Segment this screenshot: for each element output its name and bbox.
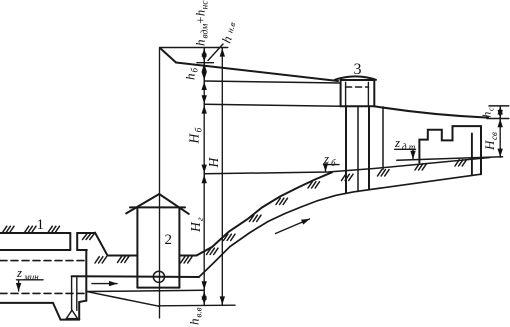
hatch group ground left — [3, 226, 15, 232]
svg-text:с: с — [487, 107, 496, 111]
bottom-left trench diagonal — [88, 292, 159, 306]
A arrows seg1 — [203, 49, 205, 53]
A arrows seg5 — [203, 175, 205, 180]
z_dt arrow — [412, 150, 414, 159]
z_dt label — [394, 135, 416, 152]
building outline — [419, 126, 481, 174]
svg-text:H: H — [187, 133, 202, 145]
terrain hatch 1 — [207, 248, 219, 254]
label h_b — [183, 68, 200, 81]
label H — [206, 157, 221, 169]
bottom tick — [159, 304, 235, 307]
tank outer left — [340, 80, 342, 106]
z_b underline — [324, 164, 340, 166]
hatch lower ground 1 — [95, 257, 107, 263]
tank top — [341, 79, 375, 81]
svg-text:вдм: вдм — [200, 24, 211, 39]
plateau hatch 3 — [415, 164, 427, 170]
h_c top tick — [489, 105, 509, 107]
A arrows seg4 — [203, 106, 205, 110]
svg-text:б: б — [331, 158, 336, 168]
H_sv label — [482, 132, 499, 151]
svg-text:3: 3 — [354, 61, 362, 78]
label H_g — [188, 217, 206, 233]
trunk left — [345, 106, 347, 193]
svg-text:в.в: в.в — [194, 307, 204, 317]
service vertical right of tower — [382, 107, 384, 169]
lower ground right of well — [180, 255, 197, 257]
z_min underline — [17, 279, 44, 281]
dimension line A — [203, 48, 205, 306]
svg-text:2: 2 — [165, 232, 173, 248]
B top arrow — [221, 49, 223, 54]
z_min arrow — [18, 281, 20, 292]
tank bottom — [341, 105, 375, 107]
pit slant — [53, 303, 61, 320]
svg-text:h: h — [187, 319, 202, 326]
h_c label — [482, 107, 496, 118]
z_min label — [16, 265, 39, 282]
terrain slope — [197, 172, 333, 255]
svg-text:z: z — [394, 135, 400, 150]
svg-text:H: H — [482, 140, 497, 151]
z_b label — [323, 151, 336, 168]
flow arrow slope — [276, 219, 310, 234]
well wall left — [136, 207, 138, 287]
steep head-loss line — [160, 48, 176, 62]
terrain hatch 2 — [224, 234, 236, 240]
svg-text:z: z — [323, 151, 329, 166]
hatch group at mound — [83, 234, 95, 240]
z_dt underline — [395, 148, 416, 150]
suction drop pipe left — [71, 276, 73, 310]
terrain hatch 5 — [308, 182, 320, 188]
B bottom arrow — [221, 299, 223, 304]
piezometric line to tower — [176, 63, 338, 82]
svg-text:+h: +h — [194, 10, 208, 25]
pit bottom — [61, 319, 80, 321]
dimension line B — [221, 48, 223, 306]
standpipe — [471, 133, 473, 174]
pipe bottom / reference — [86, 290, 204, 291]
floor lip — [79, 301, 86, 302]
dashed water level lower (z min) — [0, 292, 84, 294]
A arrows seg2 — [203, 64, 205, 68]
plateau hatch 1 — [342, 174, 354, 180]
dashed water level upper — [0, 260, 86, 262]
well wall right — [178, 207, 180, 287]
h_c dimension arrows — [499, 107, 501, 118]
terrain hatch 4 — [276, 198, 288, 204]
ground reference line — [204, 158, 490, 174]
pump circle — [153, 271, 164, 282]
axis / reference vertical — [159, 48, 161, 319]
tower roof — [335, 76, 376, 79]
neck wall left — [69, 233, 71, 250]
ground line left — [0, 232, 95, 234]
flow arrow left — [92, 283, 117, 285]
chamber top line — [0, 249, 87, 251]
label H_b — [187, 127, 205, 145]
roof eaves — [130, 206, 185, 208]
h_c bottom tick — [487, 118, 509, 120]
suction pipe top — [72, 275, 199, 278]
svg-text:h: h — [183, 74, 198, 81]
label h_vv — [187, 307, 204, 325]
svg-text:мин: мин — [23, 272, 39, 282]
svg-text:h: h — [193, 40, 208, 47]
riser pipe — [357, 106, 359, 191]
tank bottom level line — [204, 104, 340, 106]
tick at tower water level extended — [197, 62, 214, 64]
A arrows seg6 — [203, 292, 205, 296]
well floor — [137, 287, 179, 289]
dictating point level line — [397, 157, 503, 160]
roof right slope — [159, 194, 189, 214]
A arrows seg3 — [203, 82, 205, 86]
svg-text:б: б — [194, 127, 205, 133]
svg-text:H: H — [206, 157, 221, 169]
svg-text:св: св — [489, 132, 499, 140]
svg-text:h: h — [219, 34, 235, 45]
label h_nv top — [219, 21, 238, 45]
plateau hatch 2 — [378, 170, 390, 176]
hatch lower ground 2 — [118, 256, 130, 262]
chamber right wall — [85, 250, 87, 301]
tank inner right — [367, 82, 369, 106]
label h_vdm+h_ns — [193, 0, 211, 46]
roof left slope — [126, 194, 159, 213]
rising main pipe — [199, 174, 481, 277]
plateau hatch 4 — [455, 160, 467, 166]
hatch group ground right — [48, 226, 60, 232]
H_sv dimension line — [499, 119, 501, 158]
pit right wall — [78, 302, 80, 320]
terrain hatch 3 — [250, 215, 262, 221]
svg-text:1: 1 — [37, 217, 45, 233]
strainer triangle — [66, 310, 77, 318]
hatch group ground mid — [25, 226, 37, 232]
leader h_nv — [208, 44, 223, 61]
top tick (pump head level) — [160, 47, 228, 49]
z_b arrow — [325, 165, 327, 171]
svg-text:н.в: н.в — [225, 21, 238, 34]
svg-text:H: H — [188, 221, 203, 233]
svg-text:д.т: д.т — [402, 142, 416, 152]
tank outer right — [373, 80, 375, 106]
suction drop pipe right — [76, 276, 78, 310]
tank water level line — [204, 81, 340, 83]
hatch lower ground 3 — [181, 257, 193, 263]
mound slope — [95, 233, 108, 256]
svg-text:h: h — [482, 112, 494, 118]
svg-text:г: г — [196, 217, 206, 221]
svg-text:б: б — [190, 68, 200, 73]
tank inner left — [345, 82, 347, 106]
svg-text:z: z — [16, 265, 22, 280]
neck wall right — [76, 233, 78, 250]
piezometric line tower to building — [374, 106, 488, 117]
svg-text:нс: нс — [201, 0, 211, 10]
trunk right — [368, 106, 370, 189]
tank water level dashed — [346, 86, 369, 88]
chamber floor — [0, 302, 53, 304]
lower ground left of well — [108, 255, 138, 257]
